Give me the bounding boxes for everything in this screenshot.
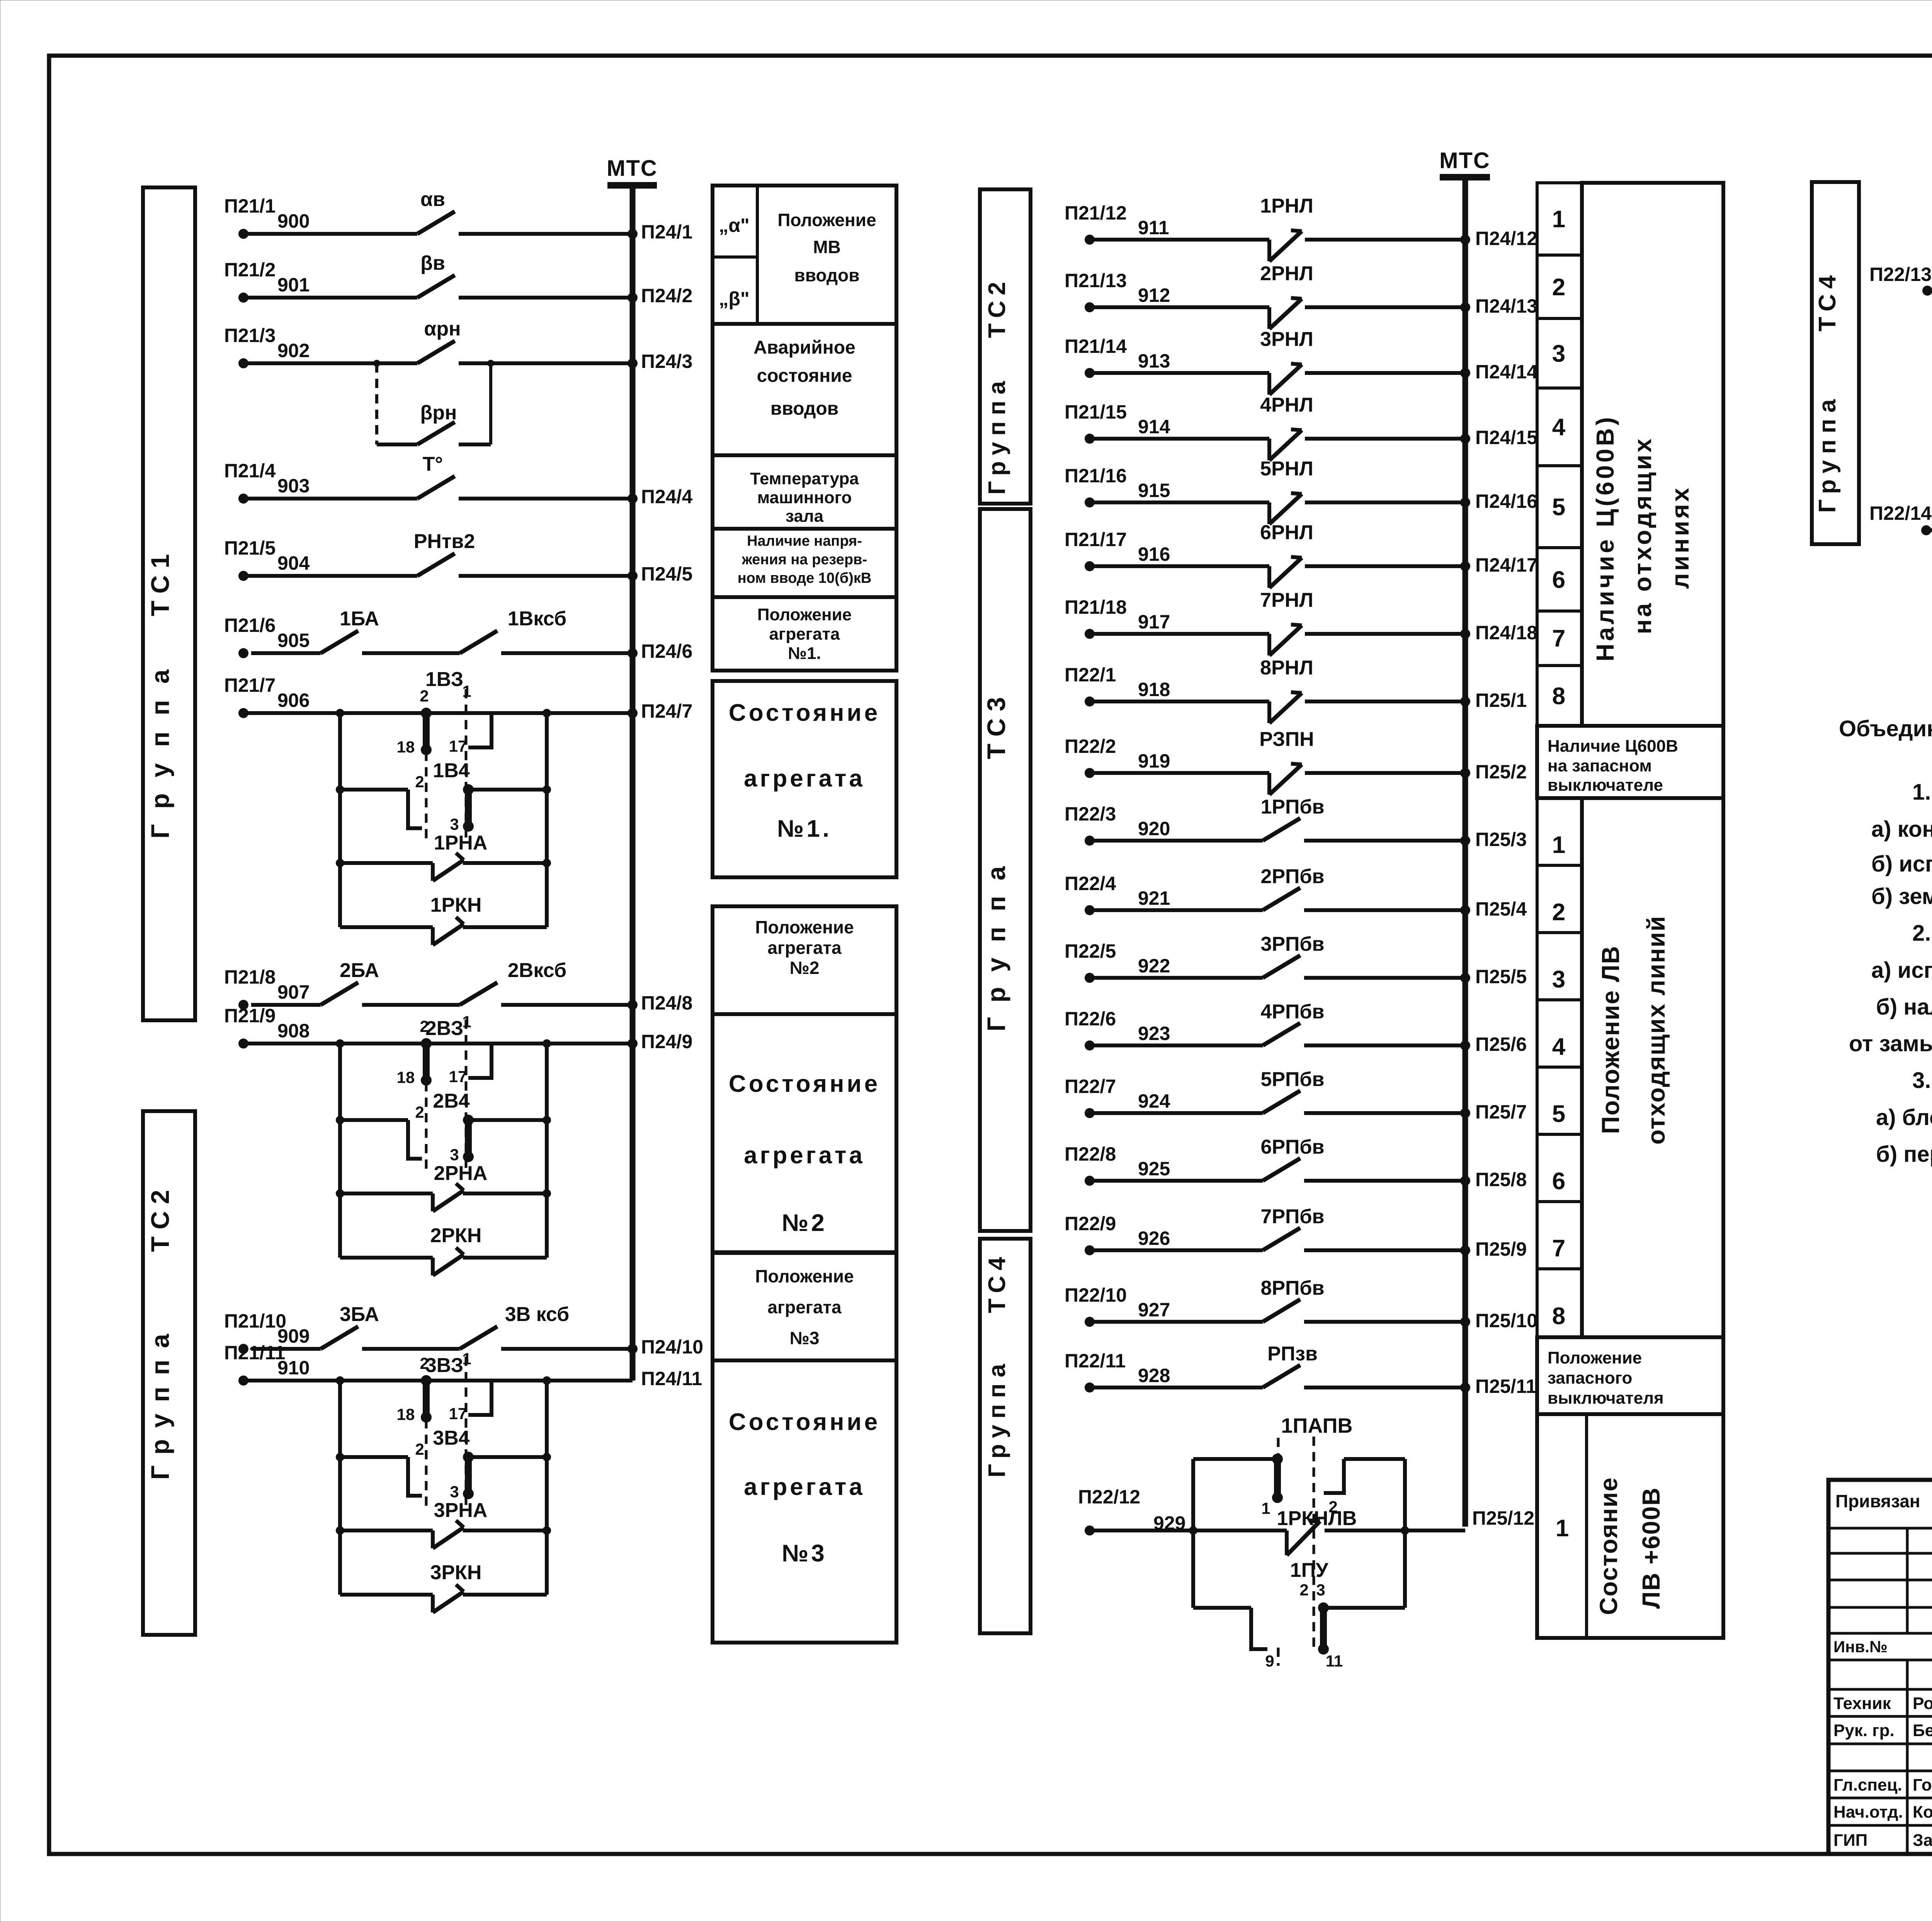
svg-text:б) наличие напряжения на: б) наличие напряжения на щитке защиты bbox=[1876, 994, 1932, 1020]
svg-text:выключателя: выключателя bbox=[1548, 1389, 1664, 1408]
svg-text:Группа: Группа bbox=[146, 653, 174, 839]
svg-text:П24/2: П24/2 bbox=[641, 285, 692, 306]
svg-text:1В4: 1В4 bbox=[433, 759, 469, 782]
svg-text:П22/7: П22/7 bbox=[1065, 1076, 1116, 1097]
svg-text:2: 2 bbox=[1299, 1581, 1308, 1599]
svg-text:8РНЛ: 8РНЛ bbox=[1260, 657, 1313, 679]
svg-text:3: 3 bbox=[1552, 340, 1565, 367]
svg-text:901: 901 bbox=[277, 274, 310, 296]
svg-text:РПзв: РПзв bbox=[1267, 1343, 1318, 1365]
svg-text:ном вводе 10(б)кВ: ном вводе 10(б)кВ bbox=[738, 570, 872, 586]
svg-text:П25/1: П25/1 bbox=[1475, 689, 1527, 711]
svg-text:Положение: Положение bbox=[755, 917, 854, 937]
svg-text:П24/4: П24/4 bbox=[641, 486, 692, 507]
svg-text:П24/14: П24/14 bbox=[1475, 361, 1537, 383]
svg-text:1РКН: 1РКН bbox=[430, 894, 482, 916]
svg-text:МТС: МТС bbox=[607, 156, 658, 181]
svg-text:Зарецкий: Зарецкий bbox=[1913, 1831, 1932, 1850]
svg-text:917: 917 bbox=[1138, 611, 1170, 633]
svg-text:αрн: αрн bbox=[424, 318, 461, 340]
svg-text:3: 3 bbox=[450, 1483, 459, 1501]
svg-text:2В4: 2В4 bbox=[433, 1090, 469, 1112]
svg-text:3: 3 bbox=[450, 815, 459, 833]
svg-text:П25/12: П25/12 bbox=[1472, 1507, 1534, 1529]
svg-text:2: 2 bbox=[420, 1354, 429, 1372]
svg-text:921: 921 bbox=[1138, 887, 1170, 909]
svg-text:от замыкания на землю.: от замыкания на землю. bbox=[1849, 1031, 1932, 1056]
svg-text:состояние: состояние bbox=[757, 366, 852, 386]
svg-text:агрегата: агрегата bbox=[767, 938, 842, 958]
svg-text:6: 6 bbox=[1552, 1168, 1565, 1195]
svg-text:3РНЛ: 3РНЛ bbox=[1260, 328, 1313, 351]
svg-text:а) исправность кабелей 600: а) исправность кабелей 600В; bbox=[1871, 958, 1932, 983]
svg-text:„β": „β" bbox=[719, 288, 749, 310]
svg-text:на отходящих: на отходящих bbox=[1629, 436, 1656, 634]
svg-text:П21/1: П21/1 bbox=[224, 195, 276, 217]
svg-text:7: 7 bbox=[1552, 1235, 1565, 1262]
svg-text:№2: №2 bbox=[782, 1210, 827, 1236]
svg-text:№1.: №1. bbox=[788, 644, 821, 663]
svg-text:Группа: Группа bbox=[984, 1358, 1010, 1478]
svg-text:№2: №2 bbox=[790, 958, 820, 978]
svg-text:5: 5 bbox=[1552, 1101, 1565, 1127]
svg-text:Гл.спец.: Гл.спец. bbox=[1833, 1776, 1902, 1794]
svg-text:1ПАПВ: 1ПАПВ bbox=[1281, 1414, 1353, 1437]
svg-text:Группа: Группа bbox=[146, 1322, 174, 1480]
svg-text:ТС2: ТС2 bbox=[984, 276, 1010, 338]
svg-text:Наличие Ц600В: Наличие Ц600В bbox=[1548, 737, 1678, 756]
svg-text:907: 907 bbox=[277, 981, 310, 1003]
svg-text:1ПУ: 1ПУ bbox=[1290, 1559, 1328, 1582]
svg-text:1РНА: 1РНА bbox=[434, 832, 488, 854]
svg-text:П24/16: П24/16 bbox=[1475, 490, 1537, 512]
svg-text:1Вксб: 1Вксб bbox=[508, 608, 566, 630]
svg-text:6РПбв: 6РПбв bbox=[1260, 1136, 1324, 1158]
svg-text:2РКН: 2РКН bbox=[430, 1224, 482, 1247]
svg-text:3РНА: 3РНА bbox=[434, 1499, 488, 1522]
svg-text:П22/5: П22/5 bbox=[1065, 940, 1116, 962]
svg-text:7РНЛ: 7РНЛ bbox=[1260, 589, 1313, 611]
svg-text:П24/18: П24/18 bbox=[1475, 622, 1537, 644]
svg-text:П21/11: П21/11 bbox=[224, 1342, 285, 1364]
svg-text:3ВЗ: 3ВЗ bbox=[425, 1354, 463, 1377]
svg-text:Положение: Положение bbox=[777, 210, 876, 230]
svg-text:Состояние: Состояние bbox=[729, 1071, 880, 1097]
svg-text:П25/8: П25/8 bbox=[1475, 1169, 1527, 1190]
svg-text:5РНЛ: 5РНЛ bbox=[1260, 458, 1313, 480]
svg-text:1. Контроль срабатывания: 1. Контроль срабатывания земляной защиты… bbox=[1912, 780, 1932, 805]
svg-text:Объединенные сигналы: (: Объединенные сигналы: ( см. лист ЭЛ-54.2… bbox=[1839, 716, 1932, 741]
svg-text:П21/6: П21/6 bbox=[224, 615, 276, 636]
svg-text:1: 1 bbox=[1556, 1515, 1569, 1542]
svg-text:агрегата: агрегата bbox=[744, 1474, 865, 1500]
svg-text:а) блокировка дверей: а) блокировка дверей bbox=[1876, 1105, 1932, 1130]
svg-text:машинного: машинного bbox=[757, 488, 852, 507]
svg-text:П21/18: П21/18 bbox=[1065, 596, 1127, 618]
svg-text:П21/3: П21/3 bbox=[224, 325, 276, 346]
svg-text:П24/6: П24/6 bbox=[641, 640, 692, 662]
svg-text:Нач.отд.: Нач.отд. bbox=[1833, 1803, 1903, 1822]
svg-text:4: 4 bbox=[1552, 1033, 1566, 1060]
svg-text:17: 17 bbox=[449, 737, 467, 755]
svg-text:П24/17: П24/17 bbox=[1475, 554, 1537, 576]
svg-text:913: 913 bbox=[1138, 350, 1170, 372]
svg-text:922: 922 bbox=[1138, 955, 1170, 977]
svg-text:Положение: Положение bbox=[757, 605, 852, 624]
svg-text:П25/5: П25/5 bbox=[1475, 966, 1527, 987]
svg-text:18: 18 bbox=[397, 1405, 415, 1423]
svg-text:Берхштейн: Берхштейн bbox=[1913, 1721, 1932, 1740]
svg-text:П22/8: П22/8 bbox=[1065, 1143, 1116, 1165]
svg-text:П25/6: П25/6 bbox=[1475, 1033, 1527, 1055]
svg-text:910: 910 bbox=[277, 1357, 310, 1379]
svg-text:βрн: βрн bbox=[420, 402, 457, 424]
svg-text:αв: αв bbox=[420, 188, 445, 211]
svg-text:П21/10: П21/10 bbox=[224, 1310, 286, 1332]
svg-text:2. Состояние кабелей 600В: 2. Состояние кабелей 600В: bbox=[1912, 921, 1932, 946]
svg-text:№3: №3 bbox=[782, 1540, 827, 1567]
svg-text:Положение: Положение bbox=[1548, 1348, 1642, 1367]
svg-text:№1.: №1. bbox=[777, 815, 832, 842]
svg-text:912: 912 bbox=[1138, 284, 1170, 306]
svg-text:911: 911 bbox=[1138, 217, 1169, 238]
svg-text:а) контроль изоляции;: а) контроль изоляции; bbox=[1871, 817, 1932, 842]
svg-text:904: 904 bbox=[277, 552, 310, 574]
svg-text:П24/15: П24/15 bbox=[1475, 427, 1537, 448]
svg-text:3РКН: 3РКН bbox=[430, 1561, 482, 1584]
svg-text:б) земляная защита агрег: б) земляная защита агрегата . bbox=[1871, 884, 1932, 909]
svg-text:Температура: Температура bbox=[750, 469, 859, 488]
svg-text:2РПбв: 2РПбв bbox=[1260, 865, 1324, 888]
svg-text:Состояние: Состояние bbox=[729, 700, 880, 726]
svg-text:П22/14: П22/14 bbox=[1869, 502, 1932, 524]
svg-text:П21/12: П21/12 bbox=[1065, 202, 1127, 224]
svg-text:отходящих линий: отходящих линий bbox=[1642, 915, 1670, 1144]
svg-text:900: 900 bbox=[277, 210, 310, 232]
svg-text:3В ксб: 3В ксб bbox=[505, 1303, 570, 1326]
svg-text:3В4: 3В4 bbox=[433, 1427, 469, 1449]
svg-text:9: 9 bbox=[1265, 1652, 1274, 1670]
svg-text:ТС2: ТС2 bbox=[146, 1183, 174, 1252]
svg-text:2Вксб: 2Вксб bbox=[508, 959, 566, 982]
svg-text:17: 17 bbox=[449, 1404, 467, 1423]
svg-text:8РПбв: 8РПбв bbox=[1260, 1277, 1324, 1299]
svg-text:б) исправность блоков пит: б) исправность блоков питания релейной з… bbox=[1871, 851, 1932, 877]
svg-text:жения на резерв-: жения на резерв- bbox=[742, 552, 867, 568]
svg-text:905: 905 bbox=[277, 630, 310, 651]
svg-text:6РНЛ: 6РНЛ bbox=[1260, 521, 1313, 544]
svg-text:П22/11: П22/11 bbox=[1065, 1350, 1126, 1372]
svg-text:2: 2 bbox=[415, 1440, 424, 1458]
svg-text:Привязан: Привязан bbox=[1835, 1491, 1920, 1511]
svg-text:ГИП: ГИП bbox=[1833, 1831, 1867, 1850]
svg-text:ЛВ +600В: ЛВ +600В bbox=[1637, 1487, 1665, 1609]
svg-text:П24/12: П24/12 bbox=[1475, 228, 1537, 249]
svg-text:929: 929 bbox=[1153, 1512, 1185, 1534]
svg-text:П22/3: П22/3 bbox=[1065, 803, 1116, 825]
svg-text:1: 1 bbox=[1261, 1499, 1270, 1517]
svg-text:Т°: Т° bbox=[423, 453, 443, 475]
svg-text:П21/7: П21/7 bbox=[224, 674, 276, 696]
svg-text:3: 3 bbox=[1552, 966, 1565, 993]
svg-text:8: 8 bbox=[1552, 683, 1565, 710]
svg-text:МВ: МВ bbox=[813, 237, 841, 257]
svg-text:б) перевод вводов на мес: б) перевод вводов на местное управление bbox=[1876, 1142, 1932, 1167]
svg-text:Состояние: Состояние bbox=[1595, 1477, 1622, 1615]
svg-text:2: 2 bbox=[415, 1103, 424, 1121]
svg-text:1БА: 1БА bbox=[340, 608, 379, 630]
svg-text:1РНЛ: 1РНЛ bbox=[1260, 195, 1313, 217]
svg-text:выключателе: выключателе bbox=[1548, 776, 1663, 795]
svg-text:П21/8: П21/8 bbox=[224, 966, 276, 988]
svg-text:П24/11: П24/11 bbox=[641, 1368, 702, 1389]
svg-text:П25/9: П25/9 bbox=[1475, 1238, 1527, 1260]
svg-text:МТС: МТС bbox=[1439, 148, 1490, 173]
svg-text:919: 919 bbox=[1138, 750, 1170, 772]
svg-text:П25/3: П25/3 bbox=[1475, 829, 1527, 850]
svg-text:П24/3: П24/3 bbox=[641, 351, 692, 372]
svg-text:1РКНЛВ: 1РКНЛВ bbox=[1277, 1507, 1357, 1530]
svg-text:Состояние: Состояние bbox=[729, 1409, 880, 1435]
svg-text:Группа: Группа bbox=[1814, 393, 1841, 513]
svg-text:925: 925 bbox=[1138, 1158, 1170, 1180]
svg-text:1: 1 bbox=[1552, 206, 1565, 233]
svg-text:агрегата: агрегата bbox=[769, 625, 840, 644]
svg-text:7РПбв: 7РПбв bbox=[1260, 1205, 1324, 1228]
svg-text:3: 3 bbox=[450, 1146, 459, 1164]
svg-text:П24/10: П24/10 bbox=[641, 1336, 703, 1358]
svg-text:П21/9: П21/9 bbox=[224, 1005, 276, 1027]
svg-text:2: 2 bbox=[1552, 899, 1565, 926]
svg-text:П21/16: П21/16 bbox=[1065, 465, 1127, 487]
svg-text:ТС4: ТС4 bbox=[1814, 270, 1841, 331]
svg-text:вводов: вводов bbox=[794, 265, 859, 285]
svg-text:17: 17 bbox=[449, 1067, 467, 1086]
svg-text:2: 2 bbox=[1552, 274, 1565, 301]
svg-text:916: 916 bbox=[1138, 543, 1170, 565]
svg-text:3: 3 bbox=[1316, 1581, 1325, 1599]
svg-text:П21/5: П21/5 bbox=[224, 537, 276, 559]
svg-text:Инв.№: Инв.№ bbox=[1833, 1638, 1888, 1656]
svg-text:3. Человек на подстанции:: 3. Человек на подстанции: bbox=[1912, 1068, 1932, 1093]
svg-text:Положение ЛВ: Положение ЛВ bbox=[1597, 945, 1624, 1134]
svg-text:П22/2: П22/2 bbox=[1065, 735, 1116, 757]
svg-text:ТС4: ТС4 bbox=[984, 1251, 1010, 1313]
svg-text:928: 928 bbox=[1138, 1365, 1170, 1386]
svg-text:П22/9: П22/9 bbox=[1065, 1213, 1116, 1234]
svg-text:П21/2: П21/2 bbox=[224, 259, 276, 281]
svg-text:4: 4 bbox=[1552, 414, 1566, 441]
svg-text:2РНЛ: 2РНЛ bbox=[1260, 262, 1313, 285]
svg-text:запасного: запасного bbox=[1548, 1369, 1632, 1387]
svg-text:Коган: Коган bbox=[1913, 1803, 1932, 1822]
svg-text:на запасном: на запасном bbox=[1548, 756, 1652, 775]
svg-text:4РНЛ: 4РНЛ bbox=[1260, 394, 1313, 416]
svg-text:2ВЗ: 2ВЗ bbox=[425, 1017, 463, 1040]
svg-text:ТС3: ТС3 bbox=[982, 690, 1010, 759]
svg-text:П22/4: П22/4 bbox=[1065, 873, 1116, 894]
svg-text:агрегата: агрегата bbox=[744, 1142, 865, 1169]
svg-text:Рук. гр.: Рук. гр. bbox=[1833, 1721, 1895, 1740]
svg-text:ТС1: ТС1 bbox=[146, 547, 174, 616]
svg-text:№3: №3 bbox=[790, 1328, 820, 1348]
svg-text:2БА: 2БА bbox=[340, 959, 379, 982]
svg-text:Положение: Положение bbox=[755, 1266, 854, 1286]
svg-text:Аварийное: Аварийное bbox=[753, 337, 855, 358]
svg-text:18: 18 bbox=[397, 738, 415, 756]
svg-text:924: 924 bbox=[1138, 1090, 1170, 1112]
svg-text:Рожкова: Рожкова bbox=[1913, 1694, 1932, 1713]
svg-text:915: 915 bbox=[1138, 480, 1170, 501]
svg-text:Группа: Группа bbox=[982, 851, 1010, 1032]
svg-text:18: 18 bbox=[397, 1068, 415, 1086]
svg-text:П24/8: П24/8 bbox=[641, 992, 692, 1014]
svg-text:П21/15: П21/15 bbox=[1065, 401, 1127, 423]
svg-text:П22/1: П22/1 bbox=[1065, 664, 1116, 686]
svg-text:2: 2 bbox=[420, 1017, 429, 1035]
svg-text:8: 8 bbox=[1552, 1303, 1565, 1330]
svg-text:1: 1 bbox=[1552, 832, 1565, 858]
svg-text:П21/14: П21/14 bbox=[1065, 335, 1127, 357]
svg-text:902: 902 bbox=[277, 340, 310, 361]
svg-text:РЗПН: РЗПН bbox=[1259, 728, 1314, 751]
svg-text:П24/7: П24/7 bbox=[641, 700, 692, 722]
svg-text:Наличие напря-: Наличие напря- bbox=[747, 533, 862, 549]
svg-text:908: 908 bbox=[277, 1020, 310, 1042]
svg-text:11: 11 bbox=[1326, 1652, 1343, 1670]
svg-text:927: 927 bbox=[1138, 1299, 1170, 1321]
svg-text:агрегата: агрегата bbox=[767, 1297, 842, 1317]
svg-text:906: 906 bbox=[277, 689, 310, 711]
svg-text:2РНА: 2РНА bbox=[434, 1162, 488, 1185]
svg-text:„α": „α" bbox=[719, 215, 749, 236]
svg-text:П25/11: П25/11 bbox=[1475, 1376, 1536, 1397]
svg-text:920: 920 bbox=[1138, 818, 1170, 839]
svg-text:918: 918 bbox=[1138, 679, 1170, 700]
svg-text:2: 2 bbox=[415, 773, 424, 791]
svg-text:РНтв2: РНтв2 bbox=[414, 530, 475, 553]
svg-text:П24/1: П24/1 bbox=[641, 221, 692, 243]
svg-text:903: 903 bbox=[277, 475, 310, 497]
svg-text:914: 914 bbox=[1138, 416, 1170, 438]
svg-text:П24/5: П24/5 bbox=[641, 563, 692, 585]
svg-text:7: 7 bbox=[1552, 625, 1565, 652]
svg-text:зала: зала bbox=[786, 507, 824, 526]
svg-text:Гороховский: Гороховский bbox=[1913, 1776, 1932, 1794]
svg-text:1РПбв: 1РПбв bbox=[1260, 796, 1324, 818]
svg-text:3БА: 3БА bbox=[340, 1303, 379, 1326]
svg-text:βв: βв bbox=[420, 252, 445, 274]
svg-text:П24/9: П24/9 bbox=[641, 1031, 692, 1052]
svg-text:3РПбв: 3РПбв bbox=[1260, 933, 1324, 955]
svg-text:4РПбв: 4РПбв bbox=[1260, 1001, 1324, 1023]
svg-text:5: 5 bbox=[1552, 494, 1565, 521]
svg-text:линиях: линиях bbox=[1666, 486, 1694, 589]
svg-text:П22/12: П22/12 bbox=[1078, 1486, 1140, 1508]
svg-text:П21/13: П21/13 bbox=[1065, 270, 1127, 291]
svg-text:агрегата: агрегата bbox=[744, 765, 865, 792]
svg-text:вводов: вводов bbox=[770, 398, 838, 419]
svg-text:П21/4: П21/4 bbox=[224, 460, 276, 482]
svg-text:П25/7: П25/7 bbox=[1475, 1101, 1527, 1123]
svg-text:П25/2: П25/2 bbox=[1475, 761, 1527, 783]
svg-text:Наличие Ц(600В): Наличие Ц(600В) bbox=[1591, 414, 1619, 661]
svg-text:923: 923 bbox=[1138, 1023, 1170, 1044]
svg-text:П22/6: П22/6 bbox=[1065, 1008, 1116, 1030]
svg-text:П25/10: П25/10 bbox=[1475, 1310, 1537, 1331]
svg-text:П21/17: П21/17 bbox=[1065, 529, 1127, 550]
svg-text:Группа: Группа bbox=[984, 375, 1010, 495]
svg-text:П24/13: П24/13 bbox=[1475, 295, 1537, 317]
svg-text:П22/13: П22/13 bbox=[1869, 264, 1932, 285]
svg-text:926: 926 bbox=[1138, 1227, 1170, 1249]
svg-text:П25/4: П25/4 bbox=[1475, 898, 1527, 920]
svg-text:6: 6 bbox=[1552, 567, 1565, 593]
svg-text:П22/10: П22/10 bbox=[1065, 1284, 1127, 1306]
svg-text:1ВЗ: 1ВЗ bbox=[425, 668, 463, 691]
svg-text:2: 2 bbox=[420, 687, 429, 705]
svg-text:Техник: Техник bbox=[1833, 1694, 1891, 1713]
svg-text:5РПбв: 5РПбв bbox=[1260, 1068, 1324, 1091]
